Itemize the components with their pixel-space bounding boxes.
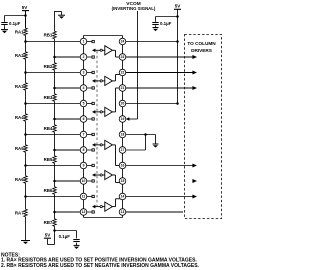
svg-text:5V: 5V (175, 4, 181, 9)
svg-text:6: 6 (83, 117, 85, 121)
svg-text:10: 10 (82, 179, 86, 183)
svg-text:RA3: RA3 (15, 84, 24, 89)
svg-text:RA6: RA6 (15, 177, 24, 182)
svg-text:DRIVERS: DRIVERS (191, 48, 212, 53)
svg-text:2. RB× RESISTORS ARE USED TO S: 2. RB× RESISTORS ARE USED TO SET NEGATIV… (1, 263, 200, 269)
svg-text:0.1µF: 0.1µF (59, 234, 71, 239)
svg-text:RB5: RB5 (44, 157, 53, 162)
svg-text:23: 23 (121, 55, 125, 59)
svg-text:(INVERTING SIGNAL): (INVERTING SIGNAL) (112, 6, 156, 11)
svg-text:TO COLUMN: TO COLUMN (187, 41, 216, 46)
svg-text:RB4: RB4 (44, 126, 53, 131)
svg-text:16: 16 (121, 164, 125, 168)
svg-text:17: 17 (121, 148, 125, 152)
svg-text:0.1µF: 0.1µF (9, 21, 21, 26)
svg-text:3: 3 (83, 71, 85, 75)
svg-text:2: 2 (83, 55, 85, 59)
svg-text:9: 9 (83, 164, 85, 168)
svg-text:RB3: RB3 (44, 95, 53, 100)
svg-text:24: 24 (121, 40, 125, 44)
svg-text:21: 21 (121, 86, 125, 90)
svg-text:8: 8 (83, 148, 85, 152)
svg-text:RA1: RA1 (15, 29, 24, 34)
svg-text:5V: 5V (22, 5, 28, 10)
svg-text:RA2: RA2 (15, 53, 24, 58)
svg-text:20: 20 (121, 102, 125, 106)
svg-text:5V: 5V (45, 232, 51, 237)
svg-text:11: 11 (82, 195, 86, 199)
svg-text:RB2: RB2 (44, 64, 53, 69)
svg-text:RB1: RB1 (44, 33, 53, 38)
svg-text:RB7: RB7 (44, 220, 53, 225)
svg-text:12: 12 (82, 210, 86, 214)
svg-text:RA7: RA7 (15, 211, 24, 216)
svg-text:18: 18 (121, 133, 125, 137)
svg-text:1: 1 (83, 40, 85, 44)
svg-text:19: 19 (121, 117, 125, 121)
svg-text:RA4: RA4 (15, 115, 24, 120)
svg-text:7: 7 (83, 133, 85, 137)
svg-text:13: 13 (121, 210, 125, 214)
svg-text:RB6: RB6 (44, 188, 53, 193)
svg-text:22: 22 (121, 71, 125, 75)
svg-text:4: 4 (83, 86, 85, 90)
svg-text:15: 15 (121, 179, 125, 183)
svg-text:5: 5 (83, 102, 85, 106)
svg-text:14: 14 (121, 195, 125, 199)
svg-text:RA5: RA5 (15, 146, 24, 151)
svg-text:0.1µF: 0.1µF (160, 21, 172, 26)
